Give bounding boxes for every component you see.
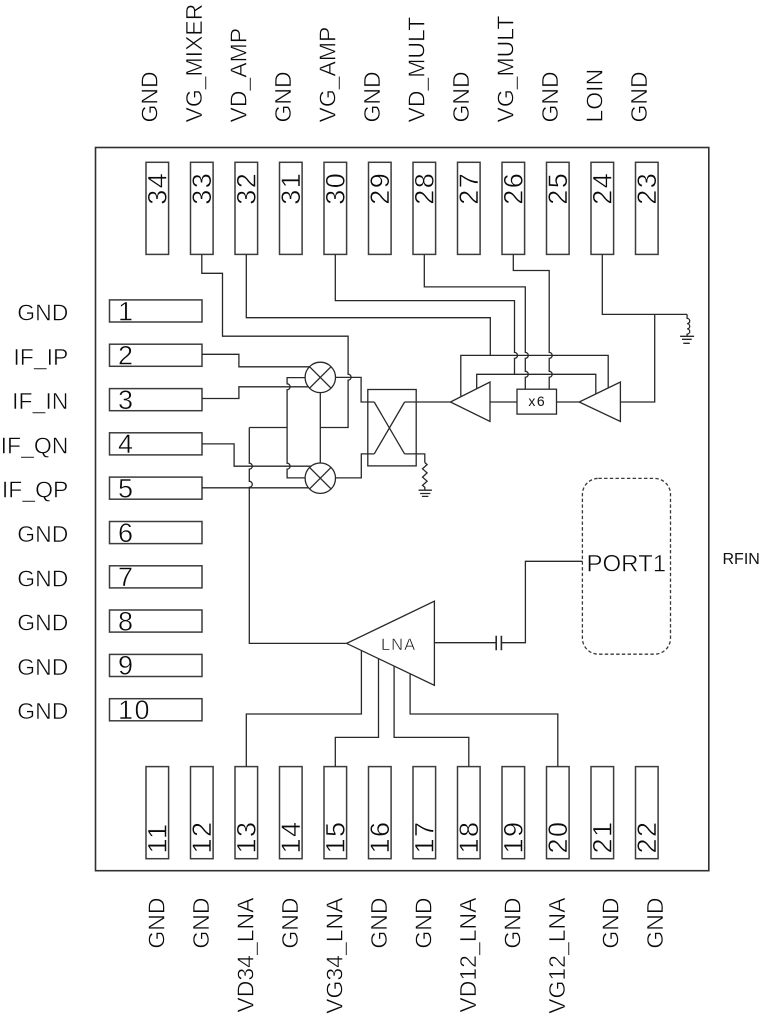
svg-text:16: 16 [365,820,395,853]
svg-text:1: 1 [118,296,135,326]
pin 24 [587,162,617,254]
pin 32 [231,162,261,254]
svg-text:GND: GND [626,71,652,122]
wire amp1 out to hybrid [416,401,450,403]
svg-text:25: 25 [543,172,573,205]
pin 20 [543,767,573,859]
wire pin32 VD_AMP [246,254,490,355]
svg-text:x6: x6 [528,393,546,409]
svg-text:GND: GND [143,898,169,949]
svg-text:15: 15 [320,820,350,853]
svg-text:VG_AMP: VG_AMP [314,27,340,123]
svg-text:VG_MIXER: VG_MIXER [181,4,207,123]
svg-text:10: 10 [118,695,151,725]
svg-text:IF_IP: IF_IP [13,344,68,370]
svg-text:14: 14 [276,820,306,853]
svg-text:GND: GND [17,300,68,326]
amplifier A1 [450,382,490,422]
svg-text:3: 3 [118,385,135,415]
svg-text:GND: GND [642,898,668,949]
pin 25 [543,162,573,254]
svg-text:6: 6 [118,518,135,548]
pin 15 [320,767,350,859]
svg-text:23: 23 [632,172,662,205]
pin 34 [142,162,172,254]
svg-text:8: 8 [118,606,135,636]
svg-text:VG34_LNA: VG34_LNA [321,897,347,1014]
mixer M1 [305,362,335,392]
svg-text:20: 20 [543,820,573,853]
svg-text:4: 4 [118,429,135,459]
svg-text:34: 34 [142,172,172,205]
pin 29 [365,162,395,254]
wire mixer1 LO port to hybrid [336,377,368,402]
svg-text:GND: GND [136,71,162,122]
pin 2 [110,341,203,371]
resistor R1 [423,463,428,491]
wire PORT1 to capacitor to LNA [434,561,582,642]
pin 31 [276,162,306,254]
pin 11 [142,767,172,859]
svg-text:GND: GND [410,898,436,949]
wire pin3 IF_IN to mixer1 [202,387,309,399]
svg-text:GND: GND [499,898,525,949]
svg-text:33: 33 [187,172,217,205]
svg-text:32: 32 [231,172,261,205]
pin 23 [632,162,662,254]
pin 1 [110,296,203,326]
svg-text:30: 30 [320,172,350,205]
svg-text:19: 19 [498,820,528,853]
svg-text:21: 21 [587,820,617,853]
svg-text:2: 2 [118,341,135,371]
svg-text:PORT1: PORT1 [587,551,667,578]
pin 13 [231,767,261,859]
wire hybrid to mixer2 LO port [336,454,368,478]
wire VG_AMP rail to amp tops [477,374,596,393]
wire pin5 IF_QP to mixer2 [202,487,309,489]
pin 12 [187,767,217,859]
svg-text:29: 29 [365,172,395,205]
pin 19 [498,767,528,859]
wire pin24 LOIN [602,254,687,314]
wire LNA bias to pin15 [335,659,378,767]
pin 21 [587,767,617,859]
x6 frequency multiplier [517,389,557,414]
wire pin33 VG_MIXER to mixer LO node [202,254,351,427]
svg-text:GND: GND [359,71,385,122]
svg-text:GND: GND [270,71,296,122]
amplifier A2 [579,382,620,422]
svg-text:GND: GND [17,565,68,591]
pin 6 [110,518,203,548]
svg-text:VG_MULT: VG_MULT [492,16,518,123]
wire LNA bias to pin13 [246,651,361,767]
svg-text:22: 22 [632,820,662,853]
pin 9 [110,651,203,681]
pin 14 [276,767,306,859]
pin 33 [187,162,217,254]
svg-text:GND: GND [17,521,68,547]
svg-text:28: 28 [409,172,439,205]
wire LNA bias to pin20 [410,674,558,767]
wire LOIN branch to amp2 input [620,314,654,402]
wire node RF tee [249,427,287,429]
svg-text:18: 18 [454,820,484,853]
wire pin2 IF_IP to mixer1 [202,354,310,367]
wire pin4 IF_QN to mixer2 [202,444,311,466]
svg-text:7: 7 [118,562,135,592]
svg-text:IF_QN: IF_QN [1,432,69,458]
svg-text:GND: GND [597,898,623,949]
quadrature hybrid coupler U1 [368,390,416,466]
mixer M2 [305,463,335,493]
wire amp2 out to x6 [557,401,580,403]
pin 3 [110,385,203,415]
svg-text:27: 27 [454,172,484,205]
svg-text:VG12_LNA: VG12_LNA [544,897,570,1014]
svg-text:GND: GND [366,898,392,949]
pin 28 [409,162,439,254]
svg-text:11: 11 [142,822,172,853]
svg-text:GND: GND [448,71,474,122]
ground (inductor L1) [680,336,694,343]
LNA amplifier [347,601,435,685]
svg-text:IF_IN: IF_IN [12,388,68,414]
pin 18 [454,767,484,859]
svg-text:LNA: LNA [381,636,416,654]
wire hybrid isolation port to resistor [416,454,425,463]
svg-text:GND: GND [188,898,214,949]
port PORT1 [582,478,670,654]
wire x6 out to amp1 [490,401,517,403]
pin 22 [632,767,662,859]
pin 17 [409,767,439,859]
wire pin30 VG_AMP [335,254,517,374]
capacitor C1 [496,636,501,650]
pin 30 [320,162,350,254]
wire RF feed vertical to both mixers [287,378,305,478]
svg-text:26: 26 [498,172,528,205]
svg-text:GND: GND [17,654,68,680]
inductor L1 [687,314,690,336]
wire pin26 VG_MULT to x6 [513,254,552,389]
ground (resistor R1) [419,490,432,496]
svg-text:VD_AMP: VD_AMP [225,28,251,123]
svg-text:VD34_LNA: VD34_LNA [232,897,258,1013]
svg-text:GND: GND [17,610,68,636]
svg-text:9: 9 [118,651,135,681]
wire LNA bias to pin18 [394,666,469,766]
svg-text:GND: GND [537,71,563,122]
svg-text:VD12_LNA: VD12_LNA [455,897,481,1013]
svg-text:VD_MULT: VD_MULT [403,17,429,123]
wire pin28 VD_MULT to x6 [424,254,528,389]
svg-text:24: 24 [587,172,617,205]
svg-text:IF_QP: IF_QP [2,477,68,503]
wire mixer1 to mixer2 vertical [319,393,321,464]
wire LNA output riser [249,428,346,644]
pin 4 [110,429,203,459]
svg-text:13: 13 [231,820,261,853]
svg-text:31: 31 [276,172,306,205]
svg-text:GND: GND [17,698,68,724]
wire VD_AMP rail to amp tops [461,355,608,396]
pin 8 [110,606,203,636]
chip body outline [96,148,709,871]
svg-text:GND: GND [277,898,303,949]
svg-text:12: 12 [187,820,217,853]
svg-text:5: 5 [118,474,135,504]
pin 27 [454,162,484,254]
svg-text:LOIN: LOIN [581,69,607,123]
pin 5 [110,474,203,504]
svg-text:RFIN: RFIN [723,551,760,568]
pin 26 [498,162,528,254]
pin 16 [365,767,395,859]
pin 10 [110,695,203,725]
svg-text:17: 17 [409,820,439,853]
pin 7 [110,562,203,592]
